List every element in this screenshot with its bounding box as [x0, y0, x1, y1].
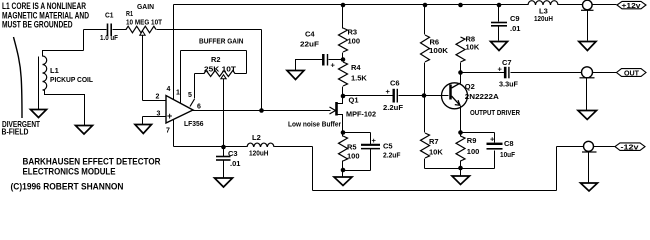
- transistor Q2 collector lead: [452, 83, 461, 88]
- svg-text:Low noise Buffer: Low noise Buffer: [288, 120, 341, 129]
- wire: L1 top lead to C1 branch: [43, 51, 84, 57]
- wire: C9 bottom stem to ground: [498, 27, 500, 41]
- svg-text:GAIN: GAIN: [137, 2, 154, 11]
- svg-text:+: +: [331, 61, 336, 70]
- resistor R5 zigzag: [339, 136, 348, 161]
- transistor Q2 emitter lead: [452, 96, 461, 105]
- svg-text:120uH: 120uH: [534, 14, 553, 23]
- wire: Q1 drain lead: [338, 97, 343, 104]
- junction dot Q1 drain node: [341, 94, 346, 99]
- terminal +12v circle: [581, 0, 594, 10]
- svg-text:(C)1996 ROBERT SHANNON: (C)1996 ROBERT SHANNON: [11, 182, 124, 192]
- junction dot Q1 source node: [341, 130, 346, 135]
- svg-text:Q2: Q2: [465, 82, 475, 91]
- svg-text:Q1: Q1: [349, 96, 359, 105]
- wire: R2 wiper stem to pin7 node: [223, 79, 225, 147]
- svg-text:+: +: [386, 87, 391, 96]
- wire: ground stem below emitter node: [460, 169, 462, 177]
- svg-text:L1: L1: [50, 66, 59, 75]
- resistor R7 zigzag: [421, 133, 430, 158]
- resistor R6 zigzag: [421, 35, 430, 62]
- inductor L1 winding: [43, 56, 47, 90]
- ground under C3: [215, 178, 233, 187]
- svg-text:C7: C7: [502, 58, 512, 67]
- svg-text:R3: R3: [348, 27, 358, 36]
- ground under -12v terminal: [581, 183, 598, 191]
- svg-text:C8: C8: [504, 139, 514, 148]
- wire: Q1 source lead: [338, 115, 343, 133]
- capacitor C8 plates: [487, 144, 503, 149]
- junction dot rail C9: [497, 3, 502, 8]
- junction dot output node: [259, 108, 264, 113]
- wire: C1 left lead: [84, 29, 107, 31]
- wire: pin 4 supply vertical: [173, 5, 175, 100]
- divergent B-field flux line: [14, 37, 23, 118]
- wire: C5 bottom to R5 node: [343, 170, 371, 172]
- junction dot R7 R9 C8 ground node: [458, 166, 463, 171]
- wire: C6 right lead to base node: [399, 95, 425, 97]
- net label -12v hexagon: [615, 142, 645, 151]
- terminal OUT circle: [580, 67, 595, 78]
- wire: C4 left lead and ground drop: [296, 60, 323, 71]
- wire: R9 bottom lead: [460, 161, 462, 169]
- wire: +12v circle to hexagon: [593, 4, 617, 6]
- svg-text:25K 10T: 25K 10T: [204, 65, 236, 74]
- svg-text:100: 100: [347, 152, 360, 161]
- terminal -12v circle: [582, 141, 597, 152]
- svg-text:3.3uF: 3.3uF: [499, 80, 518, 89]
- svg-text:LF356: LF356: [184, 119, 204, 128]
- wire: R2 top link: [181, 50, 247, 52]
- capacitor C3 plates: [216, 157, 231, 161]
- svg-text:OUTPUT DRIVER: OUTPUT DRIVER: [470, 108, 520, 117]
- wire: L2 right run: [275, 146, 313, 148]
- wire: -12v circle to hexagon: [594, 146, 615, 148]
- svg-text:MPF-102: MPF-102: [346, 110, 376, 119]
- svg-text:+: +: [490, 135, 495, 144]
- svg-text:+12v: +12v: [622, 1, 642, 10]
- op-amp U1 LF356 triangle: [166, 96, 193, 124]
- svg-text:C9: C9: [510, 14, 520, 23]
- capacitor C5 plates: [361, 145, 380, 149]
- resistor R2 zigzag: [204, 71, 235, 77]
- svg-text:R9: R9: [467, 136, 477, 145]
- svg-text:C5: C5: [383, 142, 393, 151]
- transistor Q2 2N2222A circle: [442, 83, 468, 109]
- wire: R8 bottom lead: [460, 63, 462, 73]
- svg-text:R4: R4: [351, 63, 361, 72]
- svg-text:1.5K: 1.5K: [351, 73, 367, 82]
- svg-text:R7: R7: [429, 137, 439, 146]
- ground under R5: [334, 177, 352, 186]
- svg-text:R2: R2: [211, 55, 221, 64]
- junction dot rail R3: [341, 3, 346, 8]
- net label +12v hexagon: [617, 1, 646, 10]
- svg-text:10 MEG 10T: 10 MEG 10T: [126, 18, 162, 27]
- wire: to -12v terminal circle: [557, 146, 584, 148]
- wire: R7 top lead: [424, 96, 426, 133]
- wire: C3 stem: [223, 147, 225, 179]
- svg-text:1: 1: [176, 90, 180, 97]
- svg-text:1.0 uF: 1.0 uF: [100, 33, 118, 42]
- transistor Q1 gate arrow: [330, 107, 336, 114]
- wire: R2 right lead: [235, 73, 247, 75]
- junction dot rail R6: [423, 3, 428, 8]
- wire: C5 bottom stem: [370, 149, 372, 171]
- wire: source node to C5: [343, 132, 371, 134]
- svg-text:100: 100: [467, 147, 480, 156]
- wire: base node to Q2: [425, 95, 449, 97]
- svg-text:R5: R5: [347, 143, 357, 152]
- svg-text:6: 6: [197, 104, 201, 111]
- svg-text:10K: 10K: [466, 43, 480, 52]
- transistor Q2 emitter arrow: [455, 100, 460, 105]
- resistor R8 zigzag: [456, 37, 465, 62]
- net label OUT hexagon: [617, 68, 647, 77]
- transistor Q2 base bar: [449, 85, 452, 100]
- wire: C8 bottom run: [461, 168, 495, 170]
- svg-text:2: 2: [156, 94, 160, 101]
- junction dot Q2 collector node: [458, 70, 463, 75]
- svg-text:100: 100: [348, 36, 361, 45]
- resistor R4 zigzag: [339, 62, 348, 86]
- wire: R7 bottom run to emitter ground node: [425, 168, 461, 170]
- wire: R2 right terminal drop: [246, 51, 248, 74]
- svg-text:C3: C3: [228, 149, 238, 158]
- wire: Q2 emitter vertical: [460, 106, 462, 133]
- wire: pin 7 run to L2: [174, 146, 247, 148]
- wire: pin 1 vertical: [180, 51, 182, 104]
- wire: -12v terminal shell stem: [588, 153, 590, 183]
- wire: R5 bottom lead to ground: [342, 161, 344, 177]
- capacitor C4 plates: [323, 54, 327, 66]
- wire: vertical from L1 top up to C1 row: [83, 30, 85, 51]
- wire: R3 top lead: [342, 5, 344, 29]
- junction dot emitter node: [458, 130, 463, 135]
- capacitor C9 plates: [491, 23, 507, 26]
- ground at op-amp pin 3: [135, 125, 152, 134]
- wire: R1 wiper stem down to pin 2: [142, 35, 144, 101]
- svg-text:.01: .01: [230, 159, 240, 168]
- transistor Q1 MPF-102 channel bar: [335, 102, 338, 116]
- junction dot pin7 node: [221, 145, 226, 150]
- svg-text:2N2222A: 2N2222A: [465, 92, 500, 101]
- wire: feedback vertical to output node: [261, 30, 263, 111]
- svg-text:4: 4: [167, 86, 171, 93]
- wire: C1 to R1: [113, 29, 127, 31]
- svg-text:3: 3: [157, 111, 161, 118]
- svg-text:2.2uF: 2.2uF: [383, 151, 401, 160]
- svg-text:22uF: 22uF: [300, 40, 319, 49]
- wire: L1 core line to ground: [38, 57, 40, 110]
- svg-text:-12v: -12v: [621, 142, 640, 151]
- wire: collector node to C7: [461, 72, 505, 74]
- wire: Q2 collector vertical: [460, 73, 462, 84]
- wire: C4 right lead: [329, 59, 343, 61]
- svg-text:C4: C4: [305, 30, 315, 39]
- wire: Q1 drain node to C6: [343, 95, 393, 97]
- svg-text:7: 7: [166, 128, 170, 135]
- label DIVERGENT B-FIELD: [2, 119, 41, 137]
- svg-text:BARKHAUSEN EFFECT DETECTOR: BARKHAUSEN EFFECT DETECTOR: [23, 157, 161, 167]
- svg-text:10uF: 10uF: [500, 150, 515, 159]
- capacitor C7 plates: [505, 67, 509, 79]
- wire: emitter node to C8: [461, 132, 495, 134]
- wire: R6 bottom to base node: [424, 63, 426, 96]
- svg-text:2.2uF: 2.2uF: [383, 103, 403, 112]
- svg-text:C6: C6: [390, 79, 400, 88]
- wire: R9 top lead: [460, 133, 462, 137]
- junction dot R5 bottom node: [341, 168, 346, 173]
- wire: R4 bottom lead: [342, 87, 344, 97]
- ground under emitter node: [452, 176, 470, 185]
- svg-text:+: +: [372, 136, 377, 145]
- svg-text:C1: C1: [105, 10, 114, 19]
- wire: top rail after L3: [559, 4, 583, 6]
- svg-text:R1: R1: [126, 9, 133, 18]
- svg-text:ELECTRONICS MODULE: ELECTRONICS MODULE: [23, 167, 116, 177]
- inductor L2 winding: [247, 143, 274, 147]
- svg-text:5: 5: [188, 92, 192, 99]
- ground under C9: [491, 42, 508, 51]
- svg-text:PICKUP COIL: PICKUP COIL: [50, 75, 93, 84]
- wire: C8 bottom stem: [494, 151, 496, 169]
- wire: -12v bottom rail: [313, 190, 557, 192]
- title text: [23, 157, 161, 177]
- svg-text:B-FIELD: B-FIELD: [2, 127, 29, 137]
- svg-text:MUST BE GROUNDED: MUST BE GROUNDED: [2, 20, 73, 31]
- capacitor C1 plates: [108, 24, 112, 37]
- wire: pin 5 diagonal jog: [190, 99, 195, 107]
- wire: R5 top lead: [342, 133, 344, 137]
- wire: pin 3 input: [143, 116, 167, 118]
- ground under L1 winding return: [76, 126, 93, 135]
- wire: C7 right lead to OUT: [511, 72, 582, 74]
- wire: L1 winding bottom lead: [43, 90, 85, 126]
- note text: L1 core note: [2, 1, 89, 31]
- resistor R3 zigzag: [339, 28, 348, 52]
- wire: +12v top rail: [174, 4, 529, 6]
- resistor R2 wiper arrow: [221, 75, 226, 79]
- inductor L3 winding: [528, 1, 558, 5]
- wire: C5 top stem: [370, 133, 372, 145]
- wire: op-amp output to Q1 gate: [193, 110, 331, 112]
- svg-text:+: +: [498, 65, 503, 74]
- wire: drop to -12v rail: [312, 147, 314, 191]
- ground under L1 core: [31, 110, 47, 118]
- capacitor C6 plates: [394, 89, 398, 103]
- wire: +12v terminal shell stem: [587, 11, 589, 41]
- ground under OUT terminal: [578, 111, 597, 120]
- wire: pin 7 drop: [173, 119, 175, 147]
- resistor R1 zigzag: [126, 26, 156, 33]
- wire: C8 top stem: [494, 133, 496, 143]
- wire: pin 3 to ground: [142, 117, 144, 125]
- svg-text:+: +: [167, 111, 172, 121]
- wire: R2 left lead: [195, 73, 205, 75]
- svg-text:L2: L2: [252, 133, 261, 142]
- svg-text:120uH: 120uH: [249, 149, 269, 158]
- resistor R1 wiper arrow: [140, 31, 145, 35]
- svg-text:10K: 10K: [429, 148, 443, 157]
- junction dot rail R8: [458, 3, 463, 8]
- svg-text:100K: 100K: [429, 46, 449, 55]
- wire: R7 bottom lead: [424, 159, 426, 169]
- resistor R9 zigzag: [456, 136, 465, 161]
- svg-text:OUT: OUT: [624, 68, 639, 77]
- svg-text:.01: .01: [510, 24, 520, 33]
- wire: rail up to -12v terminal: [556, 147, 558, 191]
- wire: R1 right to feedback drop: [157, 29, 262, 31]
- junction dot Q2 base node: [422, 93, 427, 98]
- wire: pin 2 input: [143, 100, 167, 102]
- junction dot C4 node: [341, 57, 346, 62]
- ground under C4: [287, 71, 304, 80]
- ground under +12v terminal: [579, 42, 596, 51]
- wire: OUT terminal shell stem: [586, 78, 588, 111]
- wire: R6 top lead: [424, 5, 426, 35]
- svg-text:BUFFER GAIN: BUFFER GAIN: [199, 37, 244, 46]
- wire: OUT circle to hexagon: [593, 72, 617, 74]
- wire: pin 5 vertical: [194, 74, 196, 99]
- wire: C9 top stem: [498, 5, 500, 22]
- wire: R3 bottom lead: [342, 53, 344, 60]
